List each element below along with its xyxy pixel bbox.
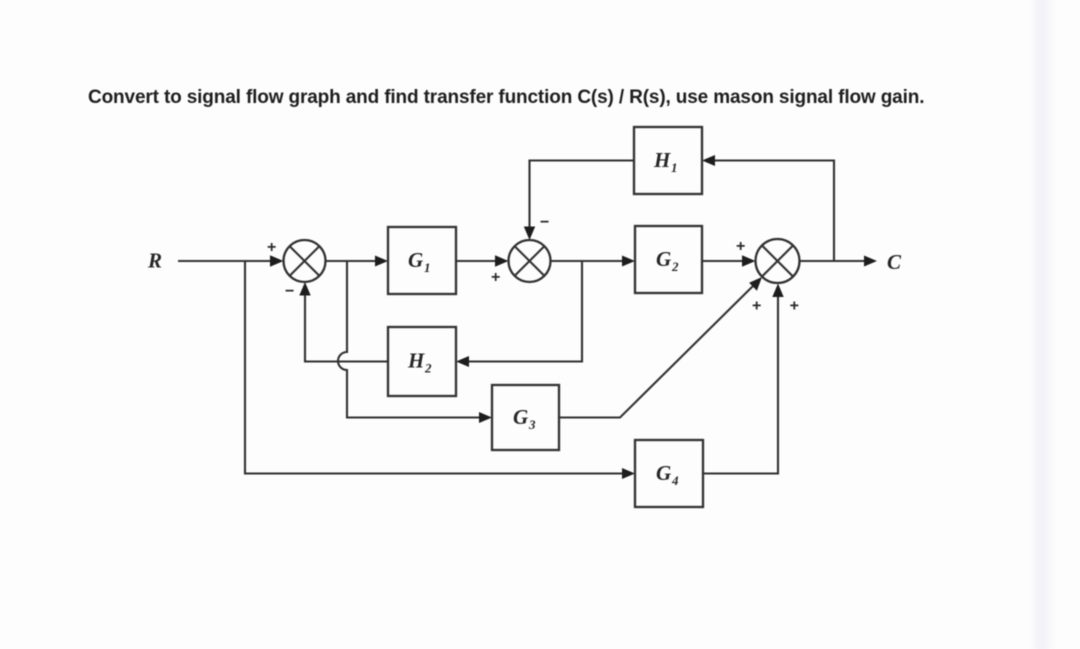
svg-text:H: H	[653, 148, 671, 172]
svg-text:G: G	[408, 248, 423, 272]
svg-text:C: C	[887, 250, 902, 274]
wire S2 to block G2	[550, 256, 635, 267]
block G4	[635, 440, 703, 507]
svg-text:2: 2	[671, 259, 679, 274]
svg-text:+: +	[790, 298, 799, 315]
svg-text:+: +	[267, 239, 276, 256]
svg-text:+: +	[491, 269, 500, 286]
block H1	[634, 127, 702, 194]
svg-text:4: 4	[671, 473, 679, 488]
wire H1 to summing junction S2	[524, 161, 634, 241]
svg-text:1: 1	[424, 260, 431, 275]
wire G2 to summing junction S3	[702, 255, 756, 266]
svg-text:+: +	[752, 298, 761, 315]
svg-text:R: R	[147, 249, 162, 273]
wire G4 to summing junction S3 (bottom input)	[703, 284, 784, 474]
svg-text:G: G	[656, 247, 671, 271]
svg-text:−: −	[540, 214, 549, 231]
svg-text:G: G	[656, 461, 671, 485]
wire H2 to summing junction S1 (minus input)	[299, 282, 388, 362]
svg-text:G: G	[513, 405, 528, 429]
wire S1 to block G1	[325, 256, 388, 267]
svg-text:−: −	[285, 283, 294, 300]
wire output tap to block H1	[702, 155, 834, 261]
summing junction S1	[284, 240, 326, 282]
wire S3 to node C	[799, 256, 877, 267]
svg-text:3: 3	[528, 417, 536, 432]
svg-text:2: 2	[424, 361, 432, 376]
svg-text:Convert to signal flow graph a: Convert to signal flow graph and find tr…	[88, 87, 924, 108]
block H2	[388, 327, 456, 396]
block G2	[635, 226, 702, 293]
summing junction S2	[509, 240, 551, 282]
wire G3 branch from S1 output (with hop over H2 wire)	[338, 261, 492, 423]
svg-text:H: H	[407, 349, 425, 373]
block G3	[492, 385, 559, 450]
wire G3 to summing junction S3 (diagonal)	[559, 277, 762, 418]
svg-text:1: 1	[671, 160, 678, 175]
wire R to summing junction S1	[178, 255, 284, 266]
wire G1 to summing junction S2	[456, 255, 509, 266]
summing junction S3	[756, 239, 800, 283]
wire R branch to block G4	[245, 261, 635, 479]
svg-text:+: +	[736, 238, 745, 255]
wire S2 output tap down to block H2	[456, 261, 582, 367]
block G1	[388, 227, 456, 294]
